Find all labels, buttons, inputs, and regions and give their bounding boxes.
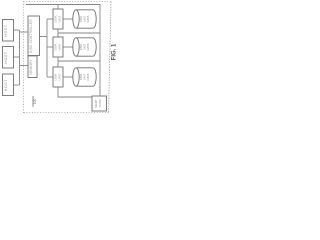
wire pair3 bottom to bottom box <box>58 87 92 97</box>
wire crossing into boundary lower <box>20 65 29 67</box>
disk cylinder 3 <box>73 68 96 86</box>
wire box to cylinder 1 <box>63 18 73 20</box>
disk cylinder 1 <box>73 10 96 28</box>
wire pair1 top stub <box>57 5 59 10</box>
wire pair3 top stub <box>57 61 59 67</box>
wire left box1 connector <box>14 29 20 31</box>
dashed system boundary left side <box>23 2 25 114</box>
host box 1 <box>3 20 14 42</box>
svg-text:DATA: DATA <box>86 43 90 50</box>
wire right trunk <box>46 19 48 77</box>
svg-text:100: 100 <box>33 99 37 105</box>
wire left box3 connector <box>14 84 20 86</box>
management box <box>92 96 107 111</box>
svg-text:UNIT: UNIT <box>58 73 62 80</box>
interface box 1 <box>53 9 63 29</box>
wire box to cylinder 3 <box>63 76 73 78</box>
dashed system boundary right side <box>109 2 112 113</box>
svg-text:HOST: HOST <box>4 51 8 63</box>
svg-text:FIG. 1: FIG. 1 <box>112 43 118 60</box>
central memory box lower <box>28 56 37 78</box>
host box 2 <box>3 47 14 69</box>
wire pair2 top stub <box>57 33 59 37</box>
wire box to cylinder 2 <box>63 46 73 48</box>
svg-text:DISK CONTROLLER: DISK CONTROLLER <box>29 19 33 53</box>
dashed system boundary bottom side <box>24 112 109 114</box>
interface box 2 <box>53 37 63 57</box>
dashed system boundary top side <box>24 1 112 3</box>
wire left box2 connector <box>14 56 20 58</box>
wire pair2 bottom to right bus <box>58 57 100 61</box>
svg-text:UNIT: UNIT <box>58 43 62 50</box>
reference numeral 100 leader <box>32 96 34 107</box>
wire top bus <box>26 5 100 97</box>
central controller box upper <box>28 16 40 56</box>
host box 3 <box>3 74 14 96</box>
svg-text:TERM: TERM <box>98 99 102 108</box>
wire branch pair2 <box>47 46 53 48</box>
wire branch pair1 <box>47 18 53 20</box>
wire central to trunk <box>40 36 48 38</box>
wire left trunk <box>19 30 21 85</box>
svg-text:HOST: HOST <box>4 24 8 36</box>
interface box 3 <box>53 67 63 87</box>
svg-text:DATA: DATA <box>86 73 90 80</box>
disk cylinder 2 <box>73 38 96 56</box>
svg-text:UNIT: UNIT <box>58 15 62 22</box>
wire crossing into boundary upper <box>20 31 29 33</box>
wire pair1 bottom to right bus <box>58 29 100 33</box>
svg-text:MEMORY: MEMORY <box>29 58 33 74</box>
wire branch pair3 <box>47 76 53 78</box>
svg-text:DATA: DATA <box>86 15 90 22</box>
svg-text:HOST: HOST <box>4 79 8 91</box>
